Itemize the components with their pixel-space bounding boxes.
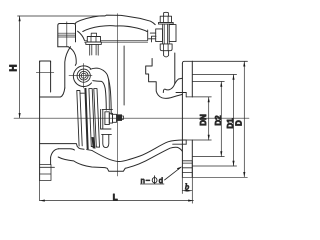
H arrow bottom	[19, 113, 21, 118]
left bolt nut	[87, 37, 100, 43]
hinge pin crosshair	[69, 63, 92, 88]
disc bottom cap	[91, 146, 94, 148]
disc guard hook	[101, 129, 112, 148]
svg-text:n: n	[141, 176, 145, 185]
left flange face / plate	[39, 61, 41, 181]
seat counterbore floor	[87, 149, 92, 152]
body bowl outer wall	[58, 147, 182, 171]
right ear right block	[169, 25, 176, 42]
seat/disc contact dark band	[84, 88, 88, 149]
dimension H extension line top	[18, 15, 106, 17]
cover dome arc	[83, 26, 147, 32]
stem tiny tip	[122, 116, 124, 119]
disc hub plate	[101, 110, 113, 130]
D2 bottom extension	[192, 156, 224, 158]
D1 bottom extension	[192, 165, 236, 167]
D1 top extension	[192, 74, 236, 76]
left flange back fillet	[51, 149, 59, 157]
hinge boss outer arc	[73, 66, 91, 87]
right stud tip	[164, 12, 169, 16]
L arrow right	[188, 200, 193, 202]
inlet pipe OD bottom line	[59, 149, 75, 150]
hinge pin circles	[77, 69, 90, 82]
disc lower dark blob	[92, 137, 96, 149]
left bolt washer	[86, 42, 102, 44]
DN top extension	[186, 96, 211, 98]
L right extension line	[191, 177, 193, 203]
stem end nut (dark)	[117, 114, 122, 121]
left bolt stud	[90, 44, 99, 55]
svg-text:b: b	[185, 181, 189, 191]
left ear box	[58, 24, 76, 47]
left throat inner wall	[65, 47, 71, 88]
right ear left block	[156, 29, 163, 42]
dimension b line with outward arrows	[182, 190, 192, 192]
outlet pipe top outer with fillet	[175, 78, 183, 83]
DN bottom extension	[186, 139, 211, 141]
stem nut 1	[109, 113, 112, 123]
cover/body parting lines	[85, 40, 148, 42]
dimension b left extension	[181, 177, 183, 193]
right stud top nut	[160, 16, 171, 22]
neck bottom curl to outlet	[163, 84, 175, 93]
outlet socket top line	[176, 92, 186, 94]
swing arm inner edge	[93, 81, 107, 110]
bonnet neck left S-curve	[68, 47, 76, 66]
dimension D1 vertical line	[233, 75, 235, 167]
stem nut 2	[113, 114, 117, 122]
right stud bottom nut	[160, 44, 172, 51]
ear bottom / neck start	[58, 46, 68, 48]
L arrow left	[40, 200, 45, 202]
bonnet right neck outer wall	[174, 53, 176, 84]
svg-text:H: H	[8, 64, 19, 71]
right flange plate	[182, 61, 247, 63]
right stud washer	[159, 22, 174, 24]
dimension L line	[40, 200, 194, 202]
D bottom extension	[182, 176, 247, 178]
socket bottom line	[173, 143, 187, 145]
left flange lower bolt hole (section lines)	[40, 165, 55, 181]
swing arm mid rib	[108, 80, 111, 111]
ear bolt centerline	[66, 22, 68, 47]
svg-text:L: L	[113, 193, 118, 202]
disc front lines	[89, 89, 95, 147]
leader line to bolt hole	[165, 167, 182, 180]
svg-text:DN: DN	[199, 114, 208, 126]
svg-text:d: d	[159, 176, 163, 185]
svg-text:D: D	[234, 120, 243, 126]
dimension H line	[19, 16, 21, 118]
stem washer	[105, 112, 109, 125]
disc back lines	[94, 89, 100, 148]
svg-text:D2: D2	[214, 115, 223, 126]
dimension DN vertical line	[208, 97, 210, 140]
right stud bottom tip	[164, 51, 169, 57]
seat ring front lines	[77, 91, 82, 147]
cover left wall	[78, 31, 85, 40]
centerline vertical	[116, 14, 118, 177]
cover to right-ear connection lines	[149, 33, 156, 39]
body bowl inner wall	[92, 140, 186, 162]
right flange bolt hole section lines	[182, 161, 192, 178]
left bolt tip	[91, 33, 96, 36]
svg-text:−: −	[146, 176, 151, 185]
dimension D vertical line	[243, 61, 245, 177]
centerline horizontal	[14, 117, 249, 119]
left bore top wall	[40, 88, 65, 97]
left flange upper bolt hole centerline	[36, 72, 54, 74]
ear gasket lines	[58, 33, 76, 37]
cover top edge	[76, 15, 156, 25]
left bore bottom wall	[40, 144, 84, 150]
swing arm outer edge	[90, 68, 111, 114]
bonnet right inner staircase	[146, 59, 183, 99]
right stud shank	[163, 24, 170, 44]
cover right wall	[148, 30, 156, 42]
socket wall verticals	[185, 93, 187, 145]
D2 top extension	[192, 81, 224, 83]
H arrow top	[19, 16, 21, 21]
dimension D2 vertical line	[220, 82, 222, 157]
seat to band cap	[80, 92, 84, 94]
bonnet inner wall right of arm	[123, 46, 125, 105]
